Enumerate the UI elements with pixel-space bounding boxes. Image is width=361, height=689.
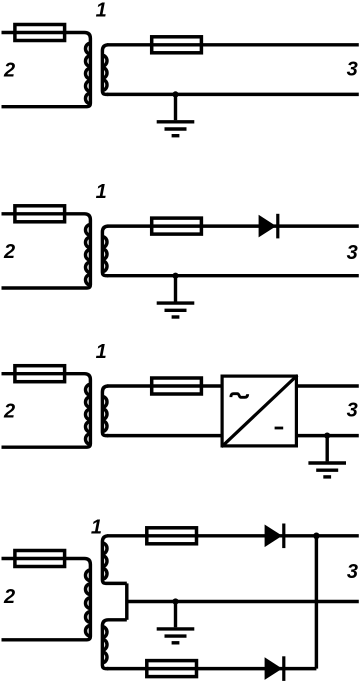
fuse F1a primary (15, 25, 65, 41)
wire: secondary bottom to converter (107, 434, 222, 437)
svg-text:2: 2 (3, 60, 15, 82)
wire: secondary top to fuse (107, 224, 359, 227)
fuse F4b top (147, 528, 197, 544)
circuit 1: transformer T1 primary winding (2, 33, 91, 107)
diode V3 bottom (265, 657, 283, 680)
AC symbol ~ (231, 394, 248, 398)
junction dot (324, 433, 330, 439)
wire: bottom branch (107, 667, 316, 670)
wire: secondary bottom rail (107, 274, 359, 277)
fuse F4c bottom (147, 661, 197, 677)
svg-text:1: 1 (96, 0, 107, 22)
svg-text:3: 3 (347, 400, 358, 422)
circuit 2: transformer T2 primary winding (2, 214, 91, 288)
junction dot (172, 91, 178, 97)
circuit 3: transformer T3 primary winding (2, 374, 91, 448)
wire: secondary bottom rail (107, 93, 359, 96)
DC symbol minus (275, 427, 284, 430)
svg-text:3: 3 (347, 561, 358, 583)
ground (308, 436, 346, 477)
circuit 4: transformer T4 secondary lower winding (102, 620, 126, 669)
diode V2 (259, 215, 277, 238)
wire: centre tap to output (middle rail) (127, 600, 359, 603)
AC/DC converter U1 (222, 376, 296, 446)
wire: converter bottom output (296, 434, 359, 437)
ground (157, 602, 195, 643)
svg-text:2: 2 (3, 401, 15, 423)
wire: secondary top to converter (107, 384, 222, 387)
fuse F1b secondary (152, 37, 202, 53)
circuit 2: transformer T2 secondary winding (102, 226, 108, 276)
ground (157, 94, 195, 135)
svg-text:1: 1 (91, 517, 102, 539)
circuit 3: transformer T3 secondary winding (102, 386, 108, 436)
converter diagonal (222, 375, 298, 447)
svg-text:2: 2 (3, 241, 15, 263)
fuse F3a primary (15, 366, 65, 382)
junction dot top branch (313, 533, 320, 540)
ground (157, 276, 195, 317)
circuit 1: transformer T1 secondary winding (102, 45, 108, 95)
svg-text:2: 2 (3, 586, 15, 608)
wire: top branch (107, 534, 359, 537)
fuse F4a primary (15, 551, 65, 567)
svg-text:1: 1 (96, 181, 107, 203)
circuit 4: transformer T4 secondary upper winding (102, 536, 126, 584)
fuse F2a primary (15, 206, 65, 222)
centre tap bar (125, 583, 128, 619)
svg-text:3: 3 (347, 59, 358, 81)
svg-text:3: 3 (347, 242, 358, 264)
junction dot (172, 598, 178, 604)
fuse F2b secondary (152, 218, 202, 234)
diode V2 top (265, 525, 283, 548)
wire: secondary top to fuse (107, 43, 359, 46)
svg-text:1: 1 (96, 341, 107, 363)
circuit 4: transformer T4 primary winding (2, 559, 91, 640)
fuse F3b secondary (152, 378, 202, 394)
wire: converter top output (296, 384, 359, 387)
wire: right vertical joining diode outputs (315, 536, 318, 669)
junction dot (172, 273, 178, 279)
